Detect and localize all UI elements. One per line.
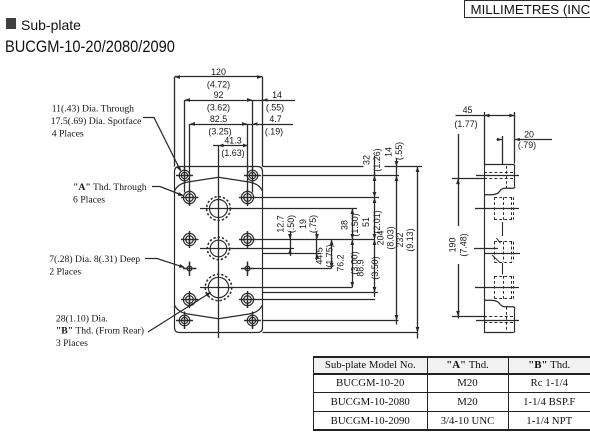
svg-text:28(1.10) Dia.: 28(1.10) Dia. (56, 313, 108, 324)
svg-text:(1.63): (1.63) (221, 148, 244, 158)
svg-text:51: 51 (361, 217, 371, 227)
svg-text:44.5: 44.5 (315, 247, 325, 264)
svg-text:120: 120 (211, 67, 226, 77)
svg-text:"A" Thd. Through: "A" Thd. Through (73, 182, 147, 193)
svg-text:88.9: 88.9 (356, 259, 366, 276)
svg-text:38: 38 (339, 220, 349, 230)
svg-text:45: 45 (463, 105, 473, 115)
svg-text:82.5: 82.5 (210, 114, 227, 124)
svg-text:4 Places: 4 Places (52, 129, 84, 140)
svg-text:11(.43) Dia. Through: 11(.43) Dia. Through (52, 104, 134, 115)
svg-text:14: 14 (384, 147, 394, 157)
svg-text:14: 14 (272, 90, 282, 100)
svg-text:3 Places: 3 Places (56, 338, 88, 349)
svg-text:(3.62): (3.62) (207, 103, 230, 113)
svg-text:(.50): (.50) (286, 215, 296, 233)
svg-text:92: 92 (214, 90, 224, 100)
svg-text:7(.28) Dia. 8(.31) Deep: 7(.28) Dia. 8(.31) Deep (49, 254, 140, 265)
svg-text:(.19): (.19) (265, 127, 283, 137)
svg-text:(.79): (.79) (518, 140, 536, 150)
svg-text:19: 19 (298, 219, 308, 229)
svg-text:"B" Thd. (From Rear): "B" Thd. (From Rear) (56, 326, 144, 337)
svg-text:76.2: 76.2 (335, 254, 345, 271)
svg-text:232: 232 (395, 233, 405, 248)
svg-text:(3.50): (3.50) (370, 256, 380, 279)
svg-text:(.55): (.55) (266, 103, 284, 113)
svg-text:(2.01): (2.01) (372, 210, 382, 233)
svg-text:12.7: 12.7 (276, 215, 286, 232)
svg-text:41.3: 41.3 (224, 136, 241, 146)
svg-text:(.75): (.75) (308, 215, 318, 233)
svg-text:(1.50): (1.50) (350, 213, 360, 236)
svg-text:204: 204 (376, 231, 386, 246)
svg-text:4.7: 4.7 (269, 114, 281, 124)
svg-text:(.55): (.55) (394, 142, 404, 160)
svg-text:(1.26): (1.26) (372, 148, 382, 171)
svg-text:(4.72): (4.72) (207, 80, 230, 90)
svg-text:6 Places: 6 Places (73, 195, 105, 206)
svg-text:(7.48): (7.48) (459, 233, 469, 256)
svg-text:17.5(.69) Dia. Spotface: 17.5(.69) Dia. Spotface (51, 116, 142, 127)
svg-text:190: 190 (448, 238, 458, 253)
svg-text:(1.75): (1.75) (325, 244, 335, 267)
svg-text:32: 32 (362, 155, 372, 165)
svg-text:(9.13): (9.13) (405, 228, 415, 251)
svg-text:2 Places: 2 Places (49, 267, 81, 278)
svg-text:(1.77): (1.77) (454, 119, 477, 129)
svg-text:20: 20 (524, 130, 534, 140)
